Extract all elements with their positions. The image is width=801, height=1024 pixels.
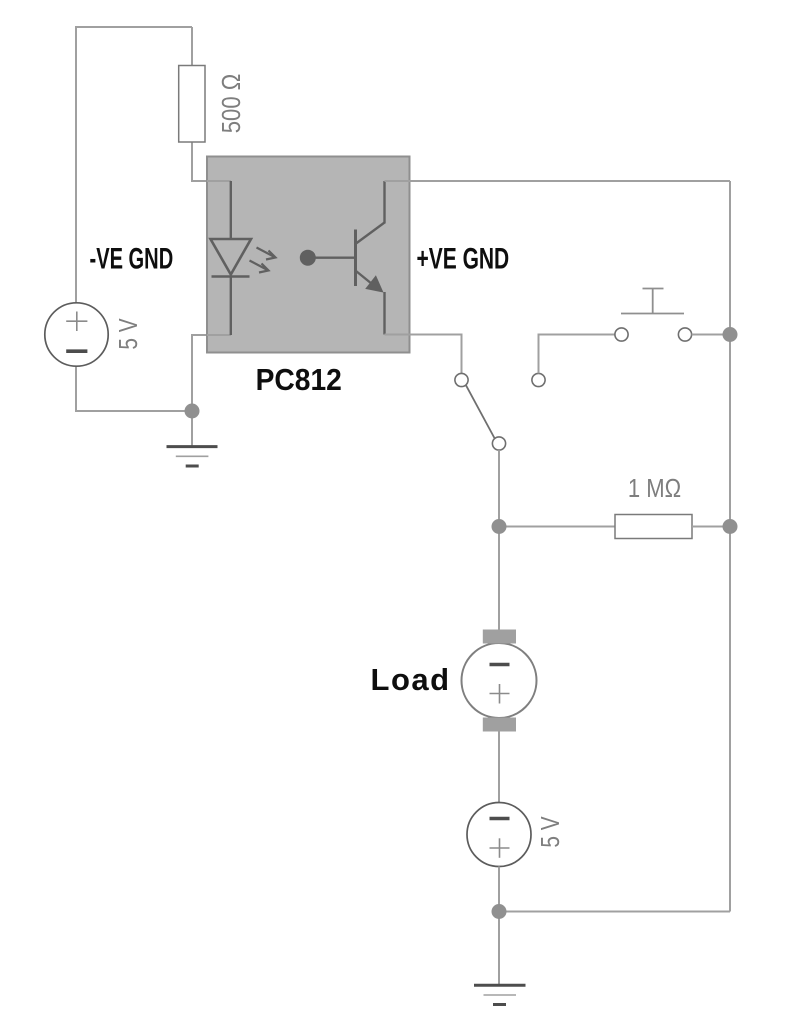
transistor Q1 base bar	[354, 230, 357, 287]
wire bottom of source to junction	[76, 410, 192, 412]
wire pole down to node	[498, 450, 500, 527]
source V2 minus mark	[490, 817, 510, 821]
wire emitter pin to switch	[385, 335, 462, 374]
push button SW2 right terminal	[678, 328, 691, 341]
light arrow lower	[250, 261, 269, 273]
junction dot left ground	[185, 404, 200, 419]
transistor Q1 emitter diagonal	[356, 271, 380, 291]
LED D1 cathode lead	[230, 277, 232, 336]
wire right rail middle	[729, 335, 731, 527]
svg-text:Load: Load	[371, 662, 451, 697]
svg-text:PC812: PC812	[256, 363, 342, 398]
ground left	[167, 447, 218, 466]
junction dot bottom	[492, 904, 507, 919]
resistor R2 body	[615, 515, 692, 539]
wire throw-2 to push button	[539, 335, 615, 374]
svg-text:5 V: 5 V	[536, 816, 565, 847]
junction dot R2-rail	[723, 519, 738, 534]
motor M1 minus mark	[490, 663, 510, 667]
wire junction to ground left	[191, 411, 193, 446]
transistor Q1 emitter arrowhead	[365, 275, 383, 292]
motor M1 body circle	[462, 643, 537, 718]
push button SW2 left terminal	[615, 328, 628, 341]
photodetector dot	[300, 250, 316, 266]
switch SW1 throw-1 terminal	[455, 373, 468, 386]
source V1 minus mark	[66, 349, 87, 353]
push button SW2 actuator	[621, 289, 684, 314]
svg-text:5 V: 5 V	[114, 318, 143, 349]
wire left vertical upper	[75, 26, 77, 303]
source V1 plus mark	[66, 312, 87, 332]
wire button to rail	[692, 334, 730, 336]
motor M1 top brush	[483, 630, 516, 644]
wire R1 to anode pin corner	[192, 142, 231, 181]
wire cathode pin to junction	[192, 335, 231, 411]
switch SW1 blade	[466, 385, 495, 438]
motor M1 plus mark	[490, 684, 510, 704]
source V2 plus mark	[490, 838, 510, 858]
wire anode pin inside box	[207, 180, 231, 182]
svg-text:1 MΩ: 1 MΩ	[628, 474, 681, 503]
svg-text:-VE GND: -VE GND	[90, 243, 174, 276]
resistor R1 body	[179, 66, 205, 143]
wire R2 to rail	[692, 526, 730, 528]
light arrow upper	[257, 248, 276, 260]
wire node A down to motor	[498, 527, 500, 631]
wire top to resistor R1	[191, 27, 193, 66]
optocoupler U1 PC812 body	[207, 157, 410, 353]
transistor Q1 emitter lead	[383, 292, 385, 335]
motor M1 bottom brush	[483, 718, 516, 732]
wire motor to source V2	[498, 732, 500, 804]
ground bottom	[474, 985, 526, 1004]
LED D1 cathode bar	[212, 275, 250, 278]
LED D1 anode lead	[230, 181, 232, 240]
wire top-left horizontal	[76, 26, 192, 28]
switch SW1 throw-2 terminal	[532, 373, 545, 386]
wire right rail upper	[729, 181, 731, 335]
source V1 circle	[45, 303, 108, 366]
wire left vertical lower	[75, 366, 77, 412]
junction dot button-rail	[723, 327, 738, 342]
wire node A to R2	[499, 526, 615, 528]
wire bottom junction to rail	[499, 911, 730, 913]
wire V2 to bottom junction	[498, 867, 500, 913]
transistor Q1 collector lead	[383, 181, 385, 224]
LED D1 triangle	[211, 239, 252, 275]
wire right rail lower	[729, 527, 731, 912]
wire cathode pin inside box	[207, 334, 231, 336]
svg-text:500 Ω: 500 Ω	[217, 74, 246, 133]
source V2 circle	[467, 803, 531, 867]
wire collector pin out of box	[385, 180, 731, 182]
switch SW1 pole terminal	[492, 437, 505, 450]
transistor Q1 collector diagonal	[356, 223, 385, 244]
wire dot to base	[308, 257, 356, 259]
svg-text:+VE GND: +VE GND	[417, 243, 510, 275]
wire bottom junction to ground	[498, 912, 500, 986]
junction dot node A	[492, 519, 507, 534]
